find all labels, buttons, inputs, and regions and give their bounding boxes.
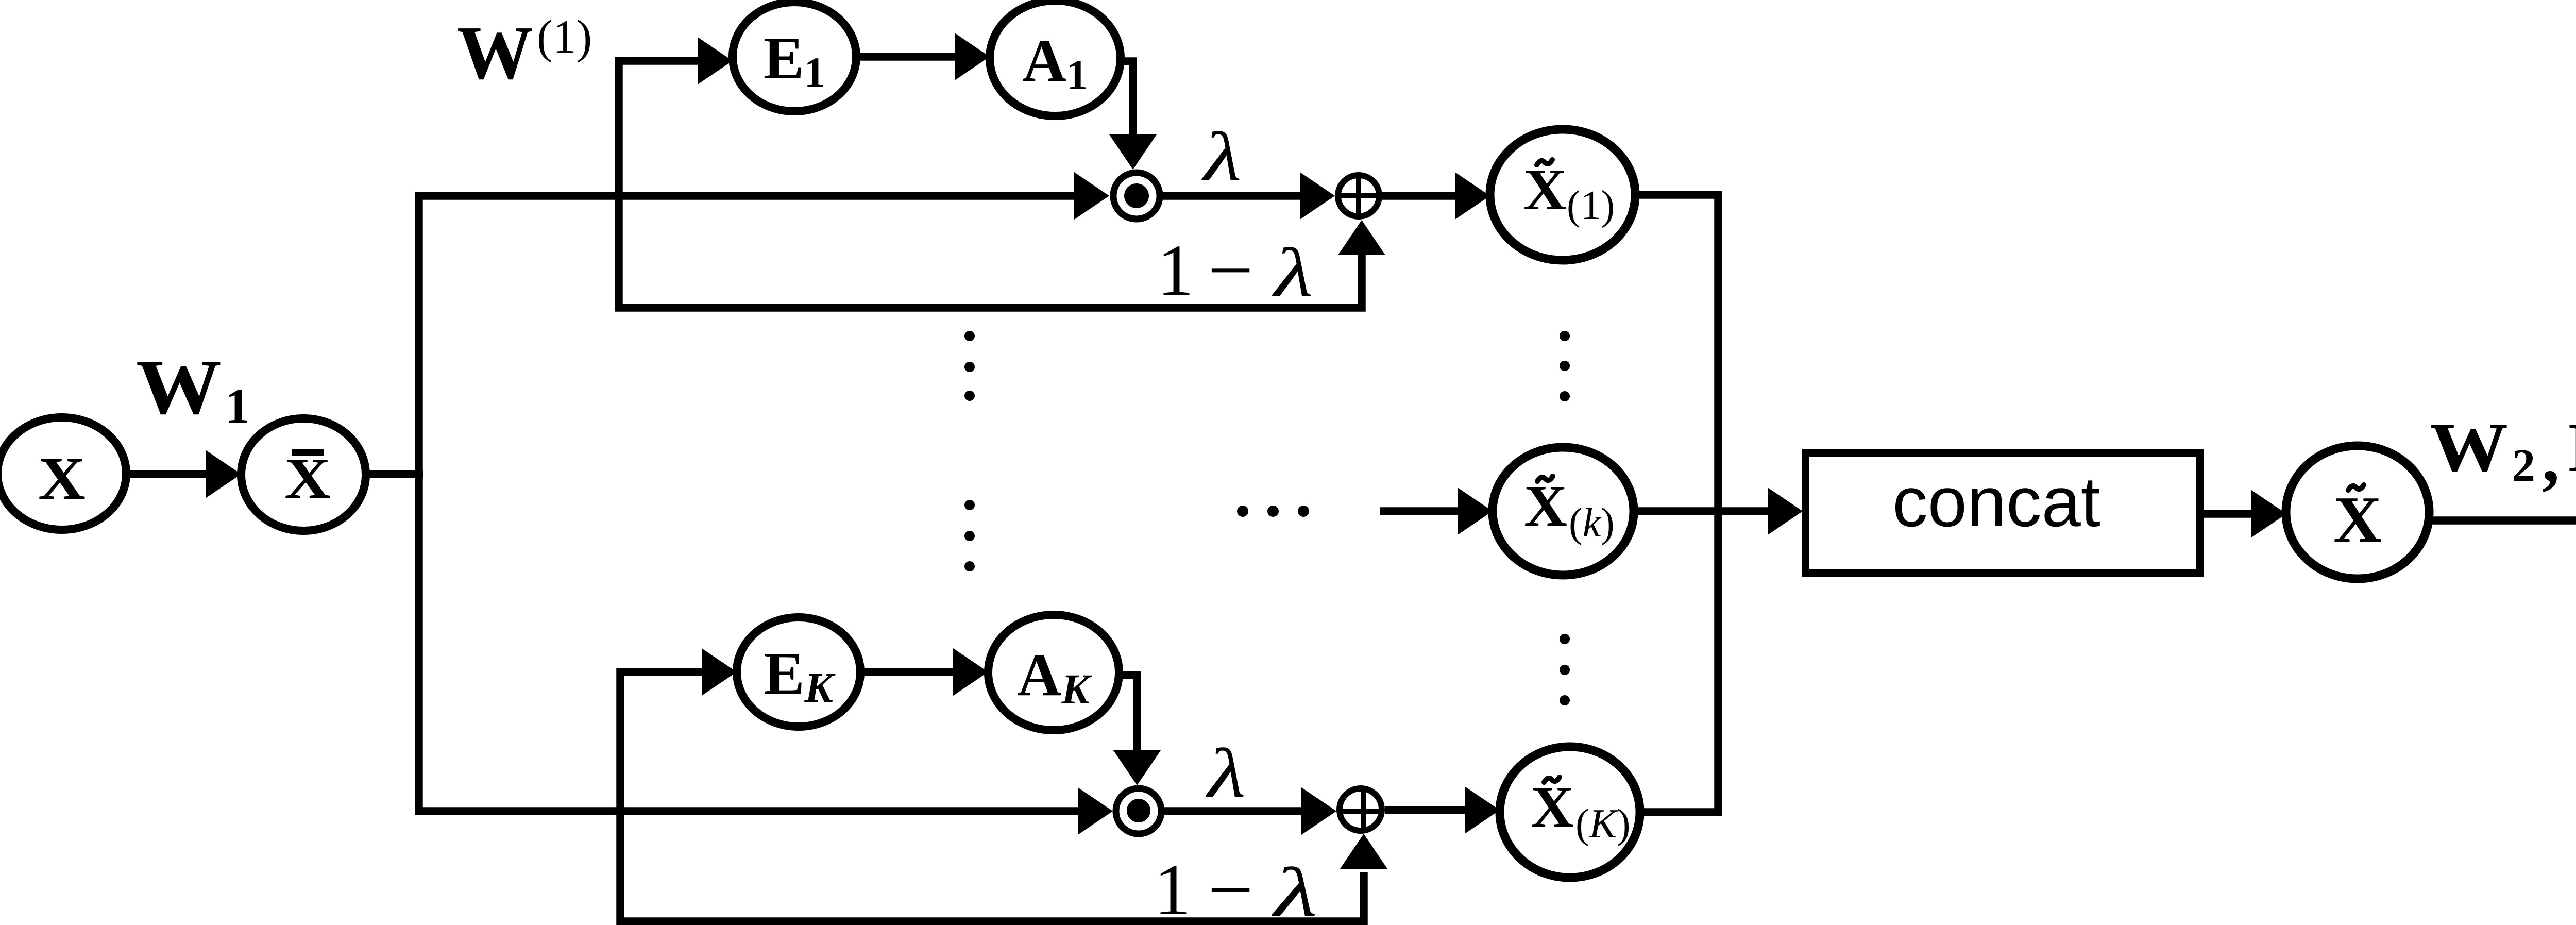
arrow into Xtilde — [2251, 490, 2286, 537]
dots vertical right column — [1560, 331, 1570, 705]
node X1 — [1490, 129, 1635, 260]
svg-text:2: 2 — [2512, 440, 2535, 491]
node Xtilde final — [2286, 446, 2429, 579]
arrow into E1 — [698, 37, 733, 85]
dots vertical left column — [964, 331, 975, 571]
svg-text:X: X — [2333, 483, 2382, 556]
svg-text:(1): (1) — [537, 10, 592, 63]
node AK — [988, 615, 1119, 730]
node X — [0, 417, 126, 530]
arrow into AK — [953, 648, 988, 696]
svg-text:−: − — [1208, 229, 1253, 311]
svg-text:λ: λ — [1272, 234, 1313, 312]
arrow into odot bottom from trunk — [1078, 787, 1113, 835]
label 1-lambda top — [1157, 229, 1313, 312]
svg-text:λ: λ — [1201, 119, 1242, 196]
svg-text:W: W — [457, 11, 533, 95]
wire AK to odot bottom — [1117, 675, 1137, 751]
box concat — [1805, 453, 2200, 573]
wire oplus to X1 — [1381, 192, 1458, 200]
svg-text:(k): (k) — [1569, 500, 1615, 546]
arrow into Xk — [1458, 487, 1493, 535]
svg-text:AK: AK — [1018, 641, 1092, 713]
wire into Xk — [1380, 507, 1459, 515]
svg-text:X: X — [1531, 774, 1574, 839]
svg-text:B: B — [2568, 409, 2576, 486]
operator odot bottom — [1116, 788, 1161, 834]
wire E1 to A1 — [856, 53, 956, 61]
arrow into oplus bottom from below — [1340, 834, 1387, 869]
wire EK to AK — [860, 668, 954, 676]
node XK — [1500, 747, 1640, 878]
wire odot to oplus top — [1163, 192, 1301, 200]
dots horizontal middle — [1237, 506, 1309, 517]
arrow into odot top from trunk — [1074, 172, 1109, 220]
wire collector vertical — [1634, 195, 1718, 812]
wire concat to Xtilde — [2200, 510, 2252, 518]
arrow into EK — [702, 648, 737, 696]
operator oplus top — [1338, 175, 1379, 216]
node Xbar — [241, 418, 366, 531]
wire oplus to XK — [1385, 806, 1466, 814]
wire bottom branch connector and 1-lambda return — [620, 672, 1364, 921]
label W2 B phi — [2430, 409, 2576, 497]
operator odot top — [1113, 173, 1160, 219]
wire odot to oplus bottom — [1164, 807, 1303, 815]
node EK — [737, 617, 860, 727]
svg-text:X: X — [284, 447, 331, 511]
svg-text:X: X — [1523, 157, 1567, 222]
wire Xk to concat — [1633, 507, 1768, 515]
arrow into odot bottom from AK — [1113, 750, 1161, 785]
arrow into odot top from A1 — [1109, 134, 1157, 170]
node A1 — [990, 1, 1121, 116]
wire top branch connector and 1-lambda return — [619, 61, 1362, 308]
svg-text:W: W — [2430, 409, 2508, 486]
arrow into oplus top — [1300, 172, 1335, 220]
svg-text:λ: λ — [1271, 854, 1317, 925]
arrow into XK — [1465, 786, 1500, 834]
node Xk — [1493, 447, 1634, 575]
arrow into oplus bottom — [1301, 787, 1336, 835]
operator oplus bottom — [1340, 788, 1383, 831]
node E1 — [733, 2, 856, 111]
svg-text:A1: A1 — [1023, 27, 1088, 98]
wire X to Xbar — [126, 470, 209, 478]
label 1-lambda bottom — [1154, 849, 1317, 925]
arrow into Xbar — [206, 450, 241, 498]
svg-text:−: − — [1208, 849, 1253, 925]
arrow into concat — [1768, 487, 1803, 535]
svg-text:(1): (1) — [1567, 183, 1615, 228]
svg-text:1: 1 — [225, 378, 250, 433]
svg-text:X: X — [38, 445, 86, 512]
wire A1 to odot — [1118, 61, 1133, 136]
svg-text:X: X — [1524, 473, 1567, 539]
svg-text:1: 1 — [1157, 229, 1194, 311]
wire Xtilde to Y — [2429, 516, 2576, 525]
wire trunk with top and bottom main rows — [419, 196, 1079, 811]
svg-text:,: , — [2542, 419, 2560, 497]
arrow into oplus top from below — [1338, 220, 1385, 255]
arrow into A1 — [955, 33, 990, 80]
arrow into X1 — [1455, 172, 1490, 220]
svg-text:EK: EK — [764, 640, 836, 711]
svg-text:concat: concat — [1892, 463, 2100, 542]
svg-text:1: 1 — [1154, 849, 1191, 925]
svg-text:E1: E1 — [764, 24, 825, 96]
svg-text:W: W — [136, 344, 222, 430]
svg-text:λ: λ — [1205, 735, 1246, 812]
svg-text:(K): (K) — [1575, 801, 1631, 847]
wire Xbar to trunk — [366, 470, 423, 478]
